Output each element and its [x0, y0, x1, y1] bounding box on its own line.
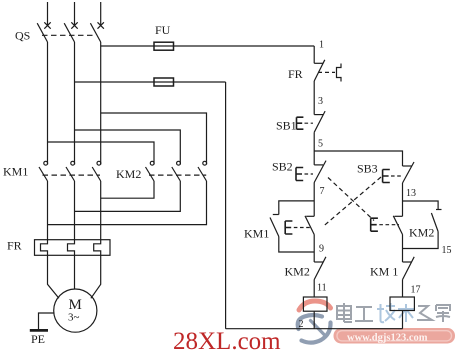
wire control return vertical — [225, 82, 227, 329]
QS pole 3 x-mark — [98, 22, 104, 28]
svg-text:SB1: SB1 — [276, 119, 297, 133]
SB2 NO contact — [314, 164, 323, 166]
fuse FU lower — [154, 78, 174, 86]
svg-text:SB2: SB2 — [272, 160, 293, 174]
wire KM2-2 output to phase B — [75, 181, 181, 211]
pushbutton SB3 actuator E — [383, 170, 390, 183]
SB2-NC dashes — [379, 224, 399, 226]
svg-text:KM1: KM1 — [244, 227, 269, 241]
svg-text:KM2: KM2 — [116, 167, 141, 181]
SB2 NC contact blade (right branch) — [395, 215, 403, 217]
svg-text:www.dgjs123.com: www.dgjs123.com — [347, 333, 428, 344]
SB2 dashes — [305, 173, 314, 175]
svg-text:SB3: SB3 — [357, 162, 378, 176]
svg-text:13: 13 — [406, 188, 416, 199]
wire FR to motor mid — [74, 255, 76, 289]
SB2 linkage diagonal dashed to right NC — [328, 178, 374, 221]
wire node13 segment — [402, 183, 404, 216]
svg-text:28XL.com: 28XL.com — [173, 328, 281, 354]
svg-text:KM2: KM2 — [285, 265, 310, 279]
wire fuse line 2 (L2 to control return) — [75, 81, 226, 83]
FR dashes to flag — [318, 71, 335, 73]
wire FR to motor right — [91, 255, 101, 298]
SB1 NC contact — [314, 114, 323, 116]
FR heater element 2 — [68, 240, 75, 256]
svg-text:3: 3 — [318, 96, 323, 107]
wire KM1 outputs down to FR — [47, 181, 49, 240]
wire node7 segment — [313, 183, 315, 217]
wire KM2-1 output crossover to phase C — [101, 181, 154, 198]
wire node13 branch to KM2 aux — [403, 201, 439, 210]
svg-text:KM 1: KM 1 — [370, 265, 398, 279]
wire tap L1 to KM2-1 — [48, 142, 155, 165]
FR NC contact (control) — [314, 62, 323, 64]
SB3 linkage diagonal dashed — [323, 177, 381, 227]
KM1 aux NO contact — [273, 214, 279, 216]
QS pole 1 x-mark — [44, 22, 50, 28]
svg-text:15: 15 — [442, 245, 452, 256]
wire L3 vertical QS to KM1-3 — [100, 42, 102, 165]
SB2 NC (in KM2 branch) actuator E — [371, 218, 378, 231]
KM1 aux NC contact (interlock, right branch) — [403, 261, 412, 263]
svg-text:17: 17 — [411, 285, 421, 296]
coil KM1 — [303, 297, 327, 311]
svg-text:9: 9 — [319, 244, 324, 255]
svg-text:7: 7 — [320, 186, 325, 197]
wire KM2-3 output crossover to phase A — [48, 181, 207, 225]
wire L1 vertical QS to KM1-1 — [47, 42, 49, 165]
KM2 main linkage dashed — [149, 174, 206, 176]
SB3 NC (in KM1 branch) actuator E — [285, 221, 292, 234]
QS pole 2 x-mark — [71, 22, 77, 28]
wire L2 vertical QS to KM1-2 — [74, 42, 76, 165]
ground bar PE — [30, 329, 48, 332]
SB3 dashes — [391, 175, 401, 177]
svg-text:KM2: KM2 — [409, 226, 434, 240]
KM2 aux NO contact (latch) — [436, 209, 442, 211]
svg-text:1: 1 — [319, 40, 324, 51]
contactor KM1 main contact 3 — [92, 161, 101, 181]
SB3 NC contact blade (left branch) — [306, 215, 314, 217]
SB3-NC dashes — [294, 227, 311, 229]
KM2 aux NC contact (interlock, left branch) — [314, 261, 323, 263]
coil KM2 — [390, 297, 414, 311]
FR trip flag — [337, 64, 342, 82]
svg-text:KM1: KM1 — [3, 165, 28, 179]
watermark logo swirl — [298, 301, 331, 343]
FR heater element 3 — [94, 240, 101, 256]
svg-text:5: 5 — [318, 139, 323, 150]
svg-text:2: 2 — [299, 319, 304, 330]
wire KM1 aux bottom — [279, 237, 314, 253]
KM1 main linkage dashed — [43, 174, 101, 176]
supply line L2 — [74, 2, 76, 26]
watermark text 电工技术之家 — [337, 303, 450, 322]
wire node7 branch to KM1 aux — [279, 201, 314, 215]
svg-text:PE: PE — [31, 332, 45, 346]
wire PE — [39, 313, 54, 330]
wire bottom return — [226, 328, 403, 330]
FR heater element 1 — [41, 240, 48, 256]
wire fuse line 1 (L3 to node 1) — [101, 45, 315, 47]
wire node11 segment — [313, 280, 315, 297]
supply line L1 — [47, 2, 49, 26]
thermal relay FR box — [35, 240, 111, 256]
wire node3-5 segment — [313, 132, 315, 165]
QS pole 1 blade — [37, 23, 47, 42]
contactor KM2 main contact 3 — [198, 161, 207, 181]
svg-text:11: 11 — [317, 283, 327, 294]
QS pole 3 blade — [90, 23, 100, 42]
supply line L3 — [100, 2, 102, 26]
svg-text:FU: FU — [155, 23, 171, 37]
svg-text:3~: 3~ — [68, 312, 80, 324]
QS pole 2 blade — [64, 23, 74, 42]
wire tap L3 to KM2-3 — [101, 113, 207, 165]
wire node9 segment — [313, 235, 315, 263]
wire node5 branch to SB3 — [314, 151, 402, 166]
wire FR to motor left — [48, 255, 59, 298]
motor M circle — [54, 289, 97, 332]
svg-text:FR: FR — [7, 239, 22, 253]
pushbutton SB2 actuator E — [296, 168, 303, 181]
watermark banner www.dgjs123.com — [334, 328, 455, 344]
fuse FU upper — [154, 42, 174, 50]
QS linkage dashed line — [42, 34, 96, 36]
wire node1 corner down to FR contact — [313, 46, 315, 63]
wire node1-3 segment — [313, 81, 315, 115]
svg-text:FR: FR — [288, 67, 303, 81]
svg-text:QS: QS — [15, 29, 30, 43]
wire KM2 aux bottom — [403, 232, 439, 249]
SB1 dashes — [305, 122, 314, 124]
wire node17 segment — [402, 280, 404, 297]
contactor KM1 main contact 2 — [66, 161, 75, 181]
wire KM1 coil to bottom — [313, 311, 315, 329]
pushbutton SB1 actuator E — [297, 117, 304, 129]
wire tap L2 to KM2-2 — [75, 130, 181, 165]
contactor KM2 main contact 1 — [146, 161, 155, 181]
SB3 NO contact — [403, 165, 412, 167]
wire node15 segment — [402, 235, 404, 263]
contactor KM2 main contact 2 — [172, 161, 181, 181]
wire KM2 coil to bottom — [402, 311, 404, 329]
contactor KM1 main contact 1 — [39, 161, 48, 181]
